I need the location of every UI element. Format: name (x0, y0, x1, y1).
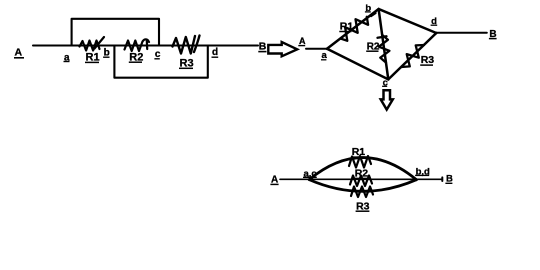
svg-text:A: A (15, 46, 23, 58)
svg-text:A: A (299, 36, 306, 46)
